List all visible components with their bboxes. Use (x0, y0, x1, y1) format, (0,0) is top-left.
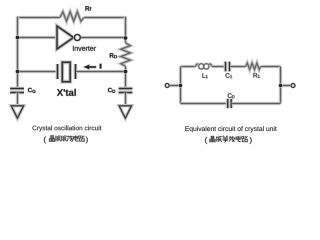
capacitor C0 right plate (229, 99, 233, 108)
label Inverter (73, 46, 96, 51)
crystal X'tal right plate (74, 64, 78, 79)
crystal X'tal left plate (56, 64, 60, 79)
capacitor Cd bottom plate (119, 91, 133, 95)
wire equivalent-loop right rail (279, 67, 283, 104)
caption CJK left: 晶振振荡电路 (49, 136, 54, 142)
label C1 (226, 73, 233, 78)
label R1 (254, 73, 260, 78)
caption CJK right: 晶振等效电路 (210, 136, 215, 142)
wire Cd to ground (124, 93, 128, 106)
capacitor C1 right plate (228, 62, 232, 72)
resistor R1 (246, 63, 261, 70)
caption: Equivalent circuit of crystal unit (185, 126, 276, 132)
inverter output bubble (74, 35, 80, 41)
wire L1 to C1 (212, 65, 225, 69)
label L1 (203, 73, 208, 78)
wire bottom right from C0 (232, 102, 281, 106)
resistor Rf (60, 12, 84, 22)
wire equivalent-loop left rail (179, 67, 183, 104)
terminal left (165, 84, 169, 88)
wire equivalent-loop top left (181, 65, 196, 69)
wire right rail below Rd (124, 66, 128, 71)
node crystal row right junction (123, 69, 128, 74)
capacitor Cg bottom plate (10, 91, 24, 95)
caption CJK left: closing paren (86, 137, 88, 144)
capacitor Cg top plate (10, 87, 24, 91)
node equivalent-loop right junction (278, 83, 283, 88)
label I (100, 64, 102, 69)
wire bottom left to C0 (181, 102, 228, 106)
wire left terminal stub (169, 84, 181, 88)
op-amp inverter U1 (57, 26, 74, 49)
wire Cg to ground (16, 93, 20, 106)
wire top-left horizontal (18, 16, 61, 20)
capacitor C1 left plate (224, 62, 228, 72)
terminal right (291, 84, 295, 88)
wire crystal row right (76, 70, 126, 74)
caption: Crystal oscillation circuit (32, 125, 101, 131)
label Rf (85, 6, 91, 10)
node crystal row left junction (15, 69, 20, 74)
resistor Rd (121, 43, 131, 67)
wire left rail (16, 17, 20, 89)
wire right terminal stub (281, 84, 292, 88)
node inverter output junction (123, 36, 128, 41)
wire top-right horizontal (84, 16, 126, 20)
capacitor C0 left plate (226, 99, 230, 108)
wire R1 to right corner (261, 65, 281, 69)
wire inverter input (18, 36, 58, 40)
inductor L1 loops (199, 64, 209, 69)
caption CJK left: opening paren (44, 137, 46, 144)
inductor L1 right hook (209, 64, 212, 67)
node inverter input junction (15, 35, 20, 40)
label Cg (28, 88, 36, 93)
crystal X'tal body (62, 62, 70, 81)
label Rd (110, 53, 117, 58)
caption CJK right: opening paren (205, 137, 207, 144)
ground right (119, 106, 131, 118)
inductor L1 left hook (196, 64, 199, 67)
label C0 (228, 93, 235, 98)
label Cd (108, 88, 115, 93)
ground left (11, 106, 23, 118)
wire right rail gap above Rd (124, 38, 128, 43)
wire crystal row left (18, 70, 57, 74)
wire inverter output (81, 36, 126, 40)
node equivalent-loop left junction (178, 83, 183, 88)
arrow I current direction (84, 65, 96, 70)
wire right rail to Cd (124, 72, 128, 89)
capacitor Cd top plate (119, 87, 133, 91)
wire right rail upper (124, 17, 128, 39)
caption CJK right: closing paren (250, 137, 252, 144)
label X'tal (57, 89, 76, 96)
wire C1 to R1 (230, 65, 246, 69)
